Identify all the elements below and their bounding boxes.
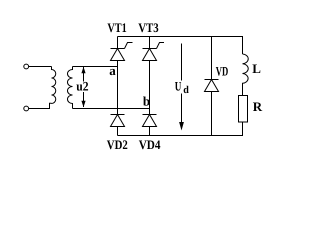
svg-text:VT1: VT1	[107, 20, 126, 35]
wire node b (secondary bottom to bridge)	[73, 108, 150, 110]
svg-text:d: d	[183, 85, 189, 96]
wire input top	[29, 66, 52, 68]
svg-text:L: L	[252, 61, 261, 76]
wire bottom bus	[118, 135, 244, 137]
thyristor VT3	[143, 43, 165, 61]
svg-text:VT3: VT3	[138, 20, 159, 35]
terminal (bottom input)	[24, 106, 29, 111]
wire input bottom	[29, 103, 52, 108]
svg-text:VD2: VD2	[107, 137, 128, 152]
transformer T secondary winding	[68, 67, 73, 109]
diode VD (freewheeling)	[205, 80, 219, 92]
wire right bridge leg	[149, 37, 151, 136]
label u2 (white box breaks arrow line)	[82, 82, 89, 93]
inductor L	[243, 54, 249, 96]
svg-text:VD: VD	[216, 64, 229, 79]
svg-text:b: b	[143, 94, 150, 109]
u2 arrowhead up	[81, 67, 85, 73]
svg-text:R: R	[253, 99, 263, 114]
Ud voltage arrow line	[181, 44, 183, 124]
svg-text:u2: u2	[76, 79, 88, 94]
resistor R	[239, 96, 248, 123]
wire load branch bottom	[242, 122, 244, 136]
wire load branch top	[242, 37, 244, 55]
u2 voltage arrow	[83, 67, 85, 107]
transformer T primary winding	[52, 67, 56, 104]
diode VD2	[111, 115, 125, 127]
wire top bus	[118, 36, 244, 38]
wire node a (secondary top to bridge)	[73, 66, 118, 68]
u2 arrowhead down	[81, 101, 85, 107]
svg-text:a: a	[109, 63, 116, 78]
wire left bridge leg	[117, 37, 119, 136]
svg-text:VD4: VD4	[139, 137, 161, 152]
terminal (top input)	[24, 64, 29, 69]
diode VD4	[143, 115, 157, 127]
label Ud (white box breaks arrow line)	[174, 81, 190, 94]
svg-text:U: U	[175, 78, 182, 93]
thyristor VT1	[111, 43, 133, 61]
wire freewheeling branch	[211, 37, 213, 136]
Ud arrowhead down	[179, 122, 184, 131]
